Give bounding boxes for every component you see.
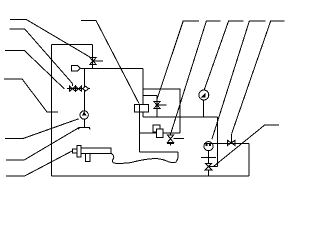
wire pipe B horizontal [143, 116, 218, 118]
wire leader L5 (to pump P1) [5, 119, 79, 139]
wire x180 drop [179, 117, 181, 133]
wire leader T7 (to meter C2) [212, 21, 266, 139]
wire leader L7 (to burner) [6, 151, 72, 176]
wire pipe C corner drop [248, 143, 250, 176]
inner box U2 top and right edges [143, 89, 180, 117]
wire leader T3 (to component E3) [81, 21, 139, 104]
wire pipe C through V7 [204, 142, 249, 144]
valve V3 [154, 101, 167, 108]
wire V3 pipe [156, 96, 158, 118]
valve E1b [76, 86, 82, 91]
component E3 [135, 105, 149, 112]
gauge G1 [199, 90, 209, 100]
wire valve row E1 [67, 88, 90, 90]
wire drain line [140, 152, 179, 158]
wire gauge stem [203, 100, 205, 117]
wire pipe A horizontal [80, 67, 143, 69]
wire V6 bottom stub [208, 170, 210, 176]
wire V4 bottom stub with tick [167, 143, 174, 146]
pump P1 [80, 111, 88, 119]
wire meter stem [208, 151, 210, 164]
burner connector [72, 149, 77, 153]
component E4 (two relay boxes) [153, 125, 160, 132]
wire x139 vertical [139, 112, 141, 152]
wire diamond drop pipe [83, 68, 85, 111]
valve V7 [228, 134, 236, 146]
wire leader R1 (right side, to valve V6) [214, 125, 279, 166]
wire leader L6 (to strainer bar) [6, 128, 79, 161]
bottom rail wire [51, 175, 249, 177]
wire leader T6 (to gauge G1) [204, 21, 243, 89]
wire leader T4 (to valve V3) [157, 21, 199, 99]
wire V1 drop pipe [92, 45, 94, 69]
diamond E2 [83, 86, 89, 91]
tank main box left edge [50, 45, 52, 177]
wire leader L4 (to tank wall tick) [4, 79, 58, 112]
valve V6 [205, 163, 212, 169]
tank main box top edge [51, 44, 92, 46]
wire shelf [143, 95, 157, 97]
wire leader T2 (to valve pair E1) [10, 29, 73, 83]
wire V4 top stub [170, 133, 172, 135]
burner leg [85, 153, 90, 161]
strainer T-bar [79, 127, 91, 129]
wire stem tick [201, 156, 216, 158]
burner flange [77, 146, 81, 157]
wire V4 stem right [174, 138, 185, 140]
wire right riser down [217, 117, 219, 166]
wire leader T1 (top-left, to valve V1) [10, 20, 90, 57]
wire pipe A corner drop [142, 68, 144, 117]
valve V4 [167, 135, 173, 143]
wire V6 stem right [209, 166, 218, 168]
valve E1a [70, 86, 76, 91]
wire E1 stem up [71, 83, 73, 86]
wire leader T5 (to valve V4) [171, 21, 221, 133]
meter C2 [204, 142, 213, 151]
tag D1 [71, 65, 80, 71]
wire row y133 [140, 132, 180, 134]
valve V1 [90, 57, 103, 64]
burner barrel [81, 148, 111, 154]
wire pump outlet [83, 119, 85, 127]
wire leader T8 (to valve V7 stem) [232, 21, 285, 134]
wire leader L3 (to valve row) [5, 51, 65, 90]
hose squiggle [111, 153, 178, 163]
